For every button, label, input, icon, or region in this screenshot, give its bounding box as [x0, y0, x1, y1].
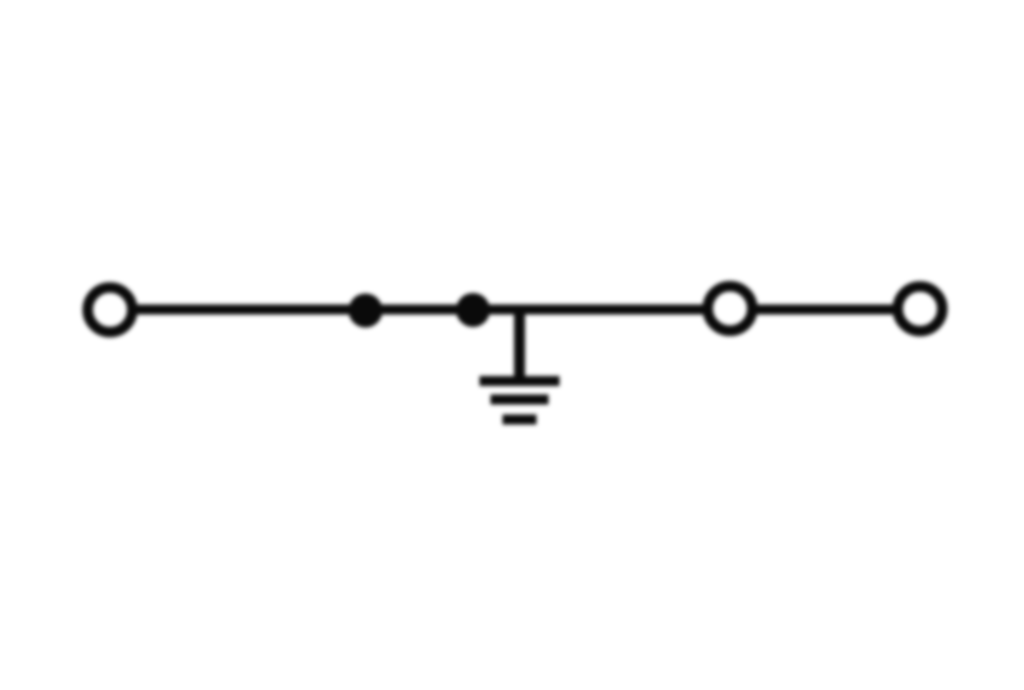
- wire ground drop: [514, 310, 525, 382]
- junction dot J1: [349, 294, 383, 328]
- wire main horizontal bus: [110, 305, 921, 315]
- terminal T3 (far-right open circle): [898, 287, 943, 332]
- terminal T2 (middle-right open circle): [708, 286, 753, 331]
- ground: [480, 381, 560, 420]
- junction dot J2: [456, 293, 490, 327]
- terminal T1 (left open circle): [88, 288, 133, 333]
